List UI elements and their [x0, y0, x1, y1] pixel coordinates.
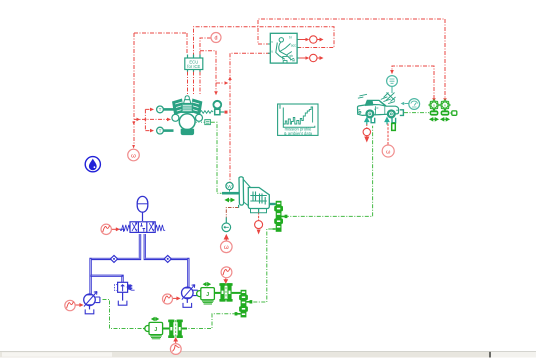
svg-text:T: T [159, 128, 162, 133]
green double arrow under TC shaft [226, 198, 235, 201]
wire engine to TC shaft [211, 122, 222, 193]
wire to X sensor and road gauge [392, 66, 434, 99]
coupling bars right pair [219, 283, 240, 301]
small ground rect [452, 111, 457, 115]
svg-text:u: u [271, 49, 273, 53]
arrow into omega circle [132, 145, 135, 149]
signal wire into right couplings [224, 278, 228, 283]
V velocity sensor circle [440, 100, 450, 110]
wire v to driver (top long) [258, 19, 445, 99]
wire T-loop top horizontal [134, 33, 187, 145]
stack1 transmission output junction [272, 201, 287, 232]
relief valve [115, 282, 135, 305]
right couplings signal source circle [221, 267, 232, 278]
rotary machine J right [197, 283, 221, 304]
arrow right at junction 230,83 [225, 81, 229, 85]
wire block2 to small rect [450, 112, 451, 114]
directional control valve [119, 222, 165, 233]
right pump signal arrow [173, 297, 181, 300]
car vehicle [358, 94, 399, 117]
wire TC minus circle (brown) [226, 208, 238, 218]
road gauge sign above car [384, 76, 398, 102]
duplicata circle d [211, 33, 221, 43]
stack2 chassis junction [235, 290, 253, 318]
mission profile block [278, 104, 318, 136]
arrow below gearbox brake circle [257, 230, 261, 235]
T sensor 1 [157, 106, 174, 113]
arrows down into gauge, X, V [390, 70, 447, 101]
hydraulic pump motor right [182, 285, 198, 308]
svg-text:d: d [215, 36, 218, 42]
arrow into engine [167, 118, 171, 122]
hydraulic pipe right branch [145, 234, 189, 287]
wire gearbox brake circle [258, 209, 260, 213]
wire acc loop [194, 27, 335, 55]
left pump signal arrow [75, 303, 83, 306]
wire d circle to ECU [200, 38, 211, 55]
svg-text:for ICE: for ICE [187, 64, 200, 69]
svg-text:v: v [271, 40, 273, 44]
svg-text:ω: ω [131, 153, 136, 159]
contact block 1 [430, 109, 439, 116]
wire car M circle [387, 124, 389, 145]
wires ECU bottom pins to engine [188, 72, 201, 96]
arrow up into TC minus circle [224, 235, 228, 241]
hydraulic pipe left branch [91, 234, 189, 294]
junction marks at 134,119 [132, 118, 140, 125]
rotary machine J bottom [143, 318, 169, 339]
driver gb output circle [310, 54, 317, 61]
arrow down into speed source [214, 91, 218, 95]
TC minus circle [222, 223, 231, 232]
contact block 2 [441, 109, 450, 116]
svg-text:ω: ω [386, 149, 391, 155]
wire stack2 to bottom couplings [187, 314, 236, 329]
torque converter bell [237, 177, 251, 207]
svg-text:x: x [433, 103, 435, 108]
engine ICE [172, 96, 213, 135]
wire stack1 to stack2 [249, 229, 272, 302]
check orifice diamond right [164, 255, 171, 262]
T sensor 2 [157, 127, 174, 134]
gearbox brake circle [255, 221, 263, 229]
teal up arrows under car [365, 118, 389, 125]
signal box on engine shaft [205, 120, 211, 125]
engine speed source sensor [214, 101, 225, 115]
signal wire into bottom couplings [174, 338, 178, 344]
left pump signal source circle [65, 300, 75, 310]
under car brake circle [363, 128, 370, 135]
wire driver gb output [297, 57, 319, 59]
wire car to contact blocks [404, 112, 429, 114]
wire v_veh feedback from W sensor [230, 53, 270, 182]
road element bar [392, 123, 396, 130]
double arrows under contact blocks [430, 118, 449, 121]
wire engine flywheel dotted to box [188, 121, 205, 123]
svg-text:v: v [444, 103, 446, 108]
teal U bracket left wheel [371, 118, 375, 123]
wire ECU branch to speed source [200, 51, 224, 91]
svg-text:ω: ω [224, 245, 229, 251]
W speed sensor on TC shaft [222, 182, 237, 193]
valve signal arrow [112, 228, 120, 231]
port labels driver [271, 36, 296, 59]
gearbox [248, 188, 276, 213]
driver br output circle [310, 36, 317, 43]
arrow below car brake circle [365, 136, 369, 142]
coupling bars bottom pair [168, 320, 187, 338]
car right port bracket [400, 110, 404, 116]
svg-text:J: J [154, 327, 157, 333]
valve signal source circle [101, 224, 111, 234]
right pump signal source circle [163, 294, 173, 304]
red plug square [225, 111, 228, 114]
bottom couplings signal source circle [170, 344, 181, 355]
wire car brake circle [366, 124, 368, 129]
M moment circle under car [382, 145, 394, 157]
speedometer circle [401, 99, 420, 110]
oil drop icon [85, 157, 100, 172]
arrow up on feedback line [228, 77, 232, 81]
wire stack1 to car wheel [285, 126, 373, 217]
scrollbar track bottom [0, 352, 536, 358]
wire left pump to bottom machine [103, 300, 144, 329]
omega circle left [128, 149, 140, 161]
X position sensor circle [429, 100, 439, 110]
hydraulic pump motor left [84, 292, 100, 314]
accumulator [137, 196, 148, 221]
svg-text:T: T [159, 107, 162, 112]
wire to engine left [134, 118, 167, 120]
arrows into T sensors [150, 108, 154, 133]
omega circle under TC [221, 241, 233, 253]
svg-text:& ambient data: & ambient data [284, 131, 313, 136]
svg-text:J: J [206, 292, 209, 298]
teal U bracket right wheel [392, 118, 396, 123]
svg-text:acc: acc [291, 44, 297, 48]
svg-text:gb: gb [289, 54, 293, 58]
wire T branch vertical [145, 109, 150, 130]
ECU block [185, 55, 203, 72]
check orifice diamond left [110, 255, 117, 262]
wire driver br output [297, 39, 319, 41]
driver block [268, 33, 300, 63]
